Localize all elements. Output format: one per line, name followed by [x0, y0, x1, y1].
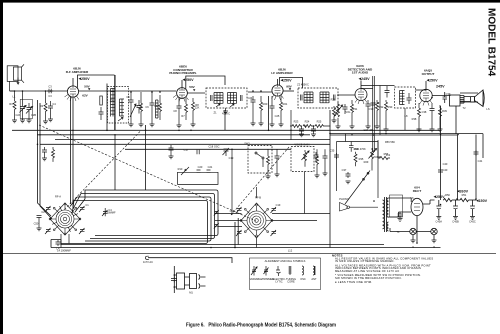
resistor R33	[385, 100, 388, 129]
wire vertical x291	[290, 110, 292, 140]
svg-text:I-F AMPLIFIER: I-F AMPLIFIER	[271, 71, 293, 75]
ground lamps I1	[411, 240, 416, 243]
svg-text:R33: R33	[388, 105, 393, 109]
wire vertical x476	[475, 135, 477, 201]
variable capacitor C2B	[26, 103, 33, 120]
STAGE V4 COMPONENTS	[350, 100, 389, 132]
electrolytic C45B	[453, 200, 458, 217]
resistor R10 on loop	[181, 167, 189, 175]
svg-text:ALIGNMENT AND DIAL SYMBOLS: ALIGNMENT AND DIAL SYMBOLS	[265, 259, 306, 263]
transformer shield box	[390, 195, 403, 217]
ground C2A	[20, 120, 25, 123]
resistor R2	[44, 91, 47, 111]
svg-text:C19: C19	[229, 156, 234, 160]
dashed gang linkage line 2	[64, 132, 140, 211]
ground R2	[43, 111, 48, 123]
capacitor C43	[398, 212, 403, 221]
svg-text:VOICE GAIN: VOICE GAIN	[294, 143, 309, 147]
wire V5 to output transformer	[432, 95, 450, 97]
shield bus thick	[114, 75, 116, 130]
motor switch box	[190, 274, 197, 289]
ground volume	[336, 126, 341, 129]
resistor R22 horizontal	[292, 125, 302, 128]
svg-text:245V: 245V	[361, 77, 370, 81]
svg-text:IN MFD UNLESS OTHERWISE MARKED: IN MFD UNLESS OTHERWISE MARKED.	[335, 259, 395, 263]
svg-text:455KC: 455KC	[222, 112, 230, 116]
svg-text:50V: 50V	[84, 85, 90, 89]
TONE CONTROL SECTION	[334, 133, 378, 204]
svg-text:3-30MMF: 3-30MMF	[104, 210, 116, 214]
ground C24	[251, 123, 256, 126]
tone pot R37	[369, 148, 377, 165]
wire vertical x37.5	[38, 100, 52, 216]
trimmer gang A topleft	[45, 206, 51, 212]
wire motor links	[174, 275, 189, 287]
svg-text:C50: C50	[34, 222, 39, 226]
resistor R8	[192, 98, 195, 124]
svg-text:1ST AUDIO: 1ST AUDIO	[352, 71, 369, 75]
antenna trimmer board box	[20, 99, 32, 118]
ground C13	[42, 158, 47, 161]
voice gain pot	[302, 150, 310, 167]
svg-text:C37: C37	[342, 168, 347, 172]
coupling vertical x373 double	[373, 76, 375, 152]
ground R32	[375, 126, 380, 129]
trimmer C19	[223, 148, 230, 156]
wire gang B drop x238.2	[237, 218, 239, 245]
wire nest riser gang A	[70, 190, 85, 215]
svg-text:M1: M1	[189, 291, 193, 295]
wire nest loop 3	[77, 197, 211, 241]
output transformer T2 secondary hatch	[460, 96, 464, 104]
pilot lamp I1	[410, 228, 416, 234]
tone box top wire	[337, 141, 379, 143]
svg-text:250V: 250V	[81, 77, 90, 81]
svg-text:C18: C18	[230, 209, 235, 213]
arrow 50V V1 down	[88, 88, 90, 90]
tube V1 internal electrodes	[70, 86, 76, 97]
capacitor C35	[334, 153, 339, 159]
voltage arrows	[79, 78, 479, 202]
svg-text:Z2 455KC: Z2 455KC	[297, 83, 309, 87]
coil Z1 primary	[211, 93, 224, 104]
resistor R15	[316, 149, 319, 175]
wire vertical x268.5	[268, 96, 270, 130]
arrow 90V V3 down	[289, 88, 291, 90]
wire lamps	[390, 228, 434, 240]
AVC line	[290, 125, 292, 127]
ground C25	[270, 124, 275, 127]
trimmer stub B left lower	[214, 223, 219, 229]
tube V5 internal electrodes	[423, 90, 429, 102]
wire R51 to 150V point	[469, 199, 477, 201]
AC PLUG	[145, 256, 148, 259]
wire transformer drop x457	[455, 106, 457, 134]
ground R20	[259, 123, 264, 126]
svg-text:L12: L12	[288, 249, 293, 253]
svg-text:Figure 6. Philco Radio-Phono: Figure 6. Philco Radio-Phonograph Model …	[186, 323, 336, 329]
capacitor C motor	[171, 277, 177, 283]
wire V3 plate feed	[280, 78, 303, 89]
svg-text:C32: C32	[375, 101, 380, 105]
svg-text:C2A: C2A	[15, 113, 20, 117]
slug arrow Z1 primary	[216, 104, 220, 107]
wire transformer to rectifier plates	[389, 198, 412, 217]
wire vertical x70.5	[70, 97, 72, 204]
resistor R6	[159, 95, 162, 120]
ground R5	[139, 124, 144, 127]
wire vertical x440.5	[440, 106, 442, 200]
coil Z2 primary	[301, 92, 314, 103]
wire gang B left stubs	[215, 214, 242, 227]
capacitor C24	[251, 96, 256, 123]
slug arrow Z1 secondary	[223, 104, 234, 114]
svg-text:LS: LS	[486, 107, 489, 111]
dashed gang linkage line 3	[231, 147, 289, 215]
plug AC	[145, 256, 148, 259]
arrow V2 250V	[183, 79, 186, 81]
switch wafer contacts	[255, 152, 257, 154]
resistor R24 horizontal	[315, 125, 330, 128]
capacitor C41	[474, 150, 479, 156]
crystal pickup	[340, 203, 348, 212]
OSCILLATOR SECTION	[42, 145, 328, 215]
svg-text:OSC: OSC	[300, 277, 306, 281]
tube V1 6BJ6 R-F amplifier	[67, 86, 78, 97]
voice gain cap	[314, 152, 319, 161]
svg-text:RECT: RECT	[413, 189, 422, 193]
motor M1 box	[177, 273, 185, 289]
svg-text:VOL: VOL	[345, 110, 351, 114]
svg-text:V6: V6	[410, 196, 414, 200]
page left border bar	[0, 0, 3, 334]
capacitor C18 on bus	[197, 150, 199, 154]
svg-text:R10: R10	[178, 167, 183, 171]
wire IF1 to V3	[248, 91, 272, 93]
STAGE V1 COMPONENTS	[10, 75, 158, 130]
svg-text:LYTIC: LYTIC	[275, 280, 282, 284]
svg-text:C45B: C45B	[452, 220, 459, 224]
ground C2B	[27, 120, 32, 123]
svg-text:250V: 250V	[185, 78, 194, 82]
ground lamps I2	[432, 240, 437, 243]
wire vertical x40	[40, 103, 52, 219]
PHONO PICKUP	[340, 203, 379, 212]
trimmer gang A bottomleft	[45, 228, 51, 234]
svg-text:R28: R28	[331, 98, 336, 102]
svg-text:PHONO: PHONO	[339, 197, 349, 201]
tube labels	[66, 64, 488, 203]
trimmer gang B bottomright	[271, 230, 277, 236]
wire bus y136	[37, 134, 310, 136]
capacitor C40	[438, 170, 443, 172]
wire AC line full width y253.5	[3, 253, 496, 255]
svg-text:R24: R24	[305, 120, 310, 124]
PHONO MOTOR SECTION	[171, 266, 206, 293]
trimmer gang A topright	[79, 206, 85, 212]
wire bus y141	[55, 139, 330, 141]
arrow V5 250V	[427, 79, 430, 81]
resistor R39	[439, 105, 442, 129]
svg-text:R30: R30	[354, 147, 359, 151]
ground C4	[48, 119, 53, 122]
ground C6	[150, 124, 155, 127]
svg-text:C1: C1	[85, 203, 89, 207]
tone box right vertical	[377, 142, 379, 199]
svg-text:R7: R7	[181, 114, 185, 118]
svg-text:RF-B: RF-B	[255, 196, 261, 200]
resistor R51	[460, 198, 469, 201]
IF2 output network	[332, 106, 406, 130]
resistor R32	[376, 100, 379, 126]
svg-text:C2B: C2B	[31, 113, 36, 117]
svg-text:CORE: CORE	[287, 280, 295, 284]
wire coupling box drop	[404, 108, 406, 130]
capacitor C37	[346, 172, 351, 178]
trimmer arrow through coil	[130, 104, 136, 117]
VOLUME CONTROL	[334, 102, 348, 129]
wire vertical x458	[457, 135, 459, 201]
STAGE V5 COMPONENTS	[417, 103, 443, 132]
svg-text:R25: R25	[317, 120, 322, 124]
capacitor C20 on loop	[197, 170, 201, 172]
svg-text:R20: R20	[263, 102, 268, 106]
ground C5	[129, 124, 134, 127]
svg-text:117V AC: 117V AC	[143, 260, 153, 264]
wire vertical x225b	[224, 110, 226, 130]
tube V3 pin fan	[272, 95, 284, 100]
svg-text:47K: 47K	[110, 99, 115, 103]
slug arrow L2	[118, 118, 123, 122]
wire plate supply V5	[425, 81, 427, 89]
svg-text:C30: C30	[369, 107, 374, 111]
svg-text:90V: 90V	[286, 85, 292, 89]
resistor R26	[333, 106, 336, 120]
wire plate supply V4	[360, 81, 362, 89]
resistor R21	[280, 96, 283, 124]
wire pickup to switch	[350, 206, 379, 208]
arrow 50V V2 down	[193, 89, 195, 91]
capacitor C6	[150, 92, 155, 124]
speaker voice coil	[471, 97, 475, 103]
wire nest lower y244.5	[61, 244, 384, 246]
wire bus y152	[125, 148, 291, 150]
wire nest lower y247.5	[51, 247, 441, 249]
svg-text:R56 56K: R56 56K	[385, 140, 395, 144]
function switch dashed box	[248, 146, 272, 174]
wire rectifier cathode to B+	[423, 200, 435, 204]
svg-text:ANT: ANT	[311, 277, 317, 281]
svg-text:PHONO PREAMPL: PHONO PREAMPL	[169, 71, 196, 75]
svg-text:R2: R2	[40, 104, 44, 108]
ground R15	[315, 175, 320, 178]
trimmer gang A bottomright	[79, 228, 85, 234]
VOICE GAIN BOX CONTENTS	[302, 150, 319, 167]
plug P1	[199, 275, 206, 289]
svg-text:L4 100MMF: L4 100MMF	[57, 249, 71, 253]
RIGHT COLUMN COMPONENTS	[378, 140, 479, 172]
POWER SUPPLY SECTION	[383, 195, 477, 243]
svg-text:C35: C35	[330, 149, 335, 153]
wire loop to chain	[10, 81, 15, 91]
ground R38	[417, 129, 422, 132]
tube V2 internal electrodes	[179, 88, 185, 99]
svg-text:C3: C3	[48, 85, 52, 89]
RF coil L2 dashed can	[108, 87, 129, 124]
tube V4 pin fan	[355, 99, 367, 104]
capacitor C38	[430, 104, 435, 130]
tube V5 6AQ5 output	[420, 89, 432, 101]
ground C26	[299, 134, 304, 137]
legend symbol osc coil	[302, 266, 304, 275]
ground C37	[346, 181, 351, 184]
FUNCTION SWITCH BOX CONTENTS	[255, 152, 264, 167]
capacitor C33	[385, 86, 390, 98]
wire V2 plate feed	[186, 76, 225, 89]
resistor R23 horizontal	[303, 125, 314, 128]
wire gang B drop x235	[234, 222, 236, 248]
arrow V1 250V	[79, 78, 82, 80]
resistor R56 horizontal	[378, 140, 390, 160]
IF TRANSFORMERS	[206, 87, 416, 173]
ground R26	[332, 120, 337, 123]
tube V3 6BJ6 I-F amplifier	[272, 85, 283, 96]
electrolytic C45A	[436, 200, 441, 217]
trimmer gang B topright	[271, 207, 277, 213]
resistor R14	[267, 149, 270, 176]
capacitor C30	[366, 100, 371, 126]
svg-text:VARIABLE: VARIABLE	[250, 277, 263, 281]
capacitor C28	[343, 104, 348, 114]
trimmer gang B topleft	[236, 207, 242, 213]
svg-text:RF-A: RF-A	[55, 195, 61, 199]
capacitor C3 series	[47, 89, 53, 93]
wire vertical x380	[379, 86, 381, 136]
wire bus right y134 double	[330, 134, 483, 158]
capacitor C23	[323, 149, 328, 173]
ground C50	[37, 228, 42, 231]
svg-text:22K: 22K	[195, 105, 200, 109]
power transformer T1 primary winding	[383, 200, 385, 229]
wire bus y147	[40, 143, 330, 145]
power transformer T1 heater winding	[387, 222, 389, 231]
svg-text:C19: C19	[276, 203, 281, 207]
svg-text:C6: C6	[145, 105, 149, 109]
wire bus to tone box	[345, 133, 347, 141]
wire nest loop 1	[85, 190, 218, 236]
coil L2 secondary	[120, 99, 125, 116]
svg-text:TONE: TONE	[373, 155, 380, 159]
resistor R11 left verticals	[52, 147, 55, 162]
tuning gang socket B	[247, 211, 266, 230]
ground C45A	[436, 217, 441, 220]
wire vertical x145.5	[145, 125, 147, 190]
arrowed 250V point then R50	[442, 199, 445, 201]
svg-text:C20: C20	[198, 165, 203, 169]
ground C8	[177, 125, 182, 128]
coupling network dashed box near V5	[395, 87, 416, 108]
STAGE V3 COMPONENTS	[251, 76, 390, 152]
ground R33	[384, 129, 389, 132]
svg-text:C40: C40	[443, 168, 448, 172]
tube V4 internal electrodes	[358, 89, 364, 100]
arrow 260V	[457, 190, 460, 192]
capacitor C7	[99, 107, 104, 120]
trimmer stub B left upper	[214, 210, 219, 216]
ground R21	[279, 124, 284, 127]
capacitor C36	[349, 142, 354, 152]
legend symbol ant coil	[313, 266, 315, 275]
svg-text:250V: 250V	[436, 195, 445, 199]
wire gang B bottom stub	[256, 238, 258, 248]
wire AC to motor y257.7	[148, 258, 232, 263]
wire plate V1 to V2	[79, 90, 177, 92]
tube V3 internal electrodes	[275, 85, 281, 96]
wire gang A bottom drop	[61, 234, 69, 248]
page top border bar	[0, 0, 500, 3]
svg-text:250V: 250V	[429, 79, 438, 83]
variable capacitor C2A	[20, 91, 27, 120]
svg-text:MEASURED AT LINE VOLTAGE OF 11: MEASURED AT LINE VOLTAGE OF 117V AC	[335, 269, 399, 273]
ground R39	[438, 129, 443, 132]
arrow 250V rect	[434, 196, 437, 198]
trimmer gang B bottomleft	[236, 230, 242, 236]
ground C30	[366, 126, 371, 129]
svg-text:R51: R51	[462, 193, 467, 197]
svg-text:150V: 150V	[479, 199, 488, 203]
capacitor C50 left of gang A	[37, 187, 331, 248]
svg-text:R32: R32	[379, 105, 384, 109]
coil L2 primary	[111, 89, 116, 117]
svg-text:50V: 50V	[189, 85, 195, 89]
switch SW1 diagonal	[345, 171, 370, 205]
svg-text:C21: C21	[208, 165, 213, 169]
pilot lamp I2	[431, 228, 437, 234]
coil Z2 secondary	[320, 92, 335, 103]
GANG TRIMMERS	[45, 206, 276, 246]
capacitor C27	[311, 126, 316, 134]
gang B pin circles	[256, 204, 258, 206]
capacitor C5	[129, 92, 134, 124]
tube V2 6BE6 converter	[177, 88, 188, 99]
wire nest loop 4	[61, 201, 208, 244]
svg-text:260V: 260V	[460, 190, 469, 194]
resistor R35	[354, 152, 357, 166]
wire gang B top stub	[256, 187, 258, 198]
svg-text:SW1: SW1	[244, 142, 250, 146]
capacitor C12	[137, 100, 142, 114]
junction dots top band	[72, 130, 74, 132]
arrow V4 245V	[359, 78, 362, 80]
legend box frame	[250, 258, 321, 290]
IF transformer Z2 dashed box	[298, 88, 338, 108]
svg-text:C18 OSC: C18 OSC	[208, 145, 219, 149]
legend symbol trimmer	[264, 266, 269, 276]
svg-text:C4: C4	[52, 102, 56, 106]
power transformer T1 core	[385, 197, 387, 232]
capacitor C21 on loop	[207, 170, 211, 172]
svg-text:C34 .05: C34 .05	[363, 128, 373, 132]
wire nest vertical x51	[51, 240, 61, 248]
svg-text:245V: 245V	[436, 85, 445, 89]
STAGE V2 COMPONENTS	[129, 92, 196, 128]
svg-text:● LESS THAN ONE OHM.: ● LESS THAN ONE OHM.	[335, 280, 372, 284]
ground C38	[430, 129, 435, 132]
wire voice box drop	[304, 172, 306, 214]
output transformer T2 box	[450, 95, 461, 106]
svg-text:C24: C24	[248, 96, 253, 100]
wire V4 to coupling	[361, 86, 395, 89]
